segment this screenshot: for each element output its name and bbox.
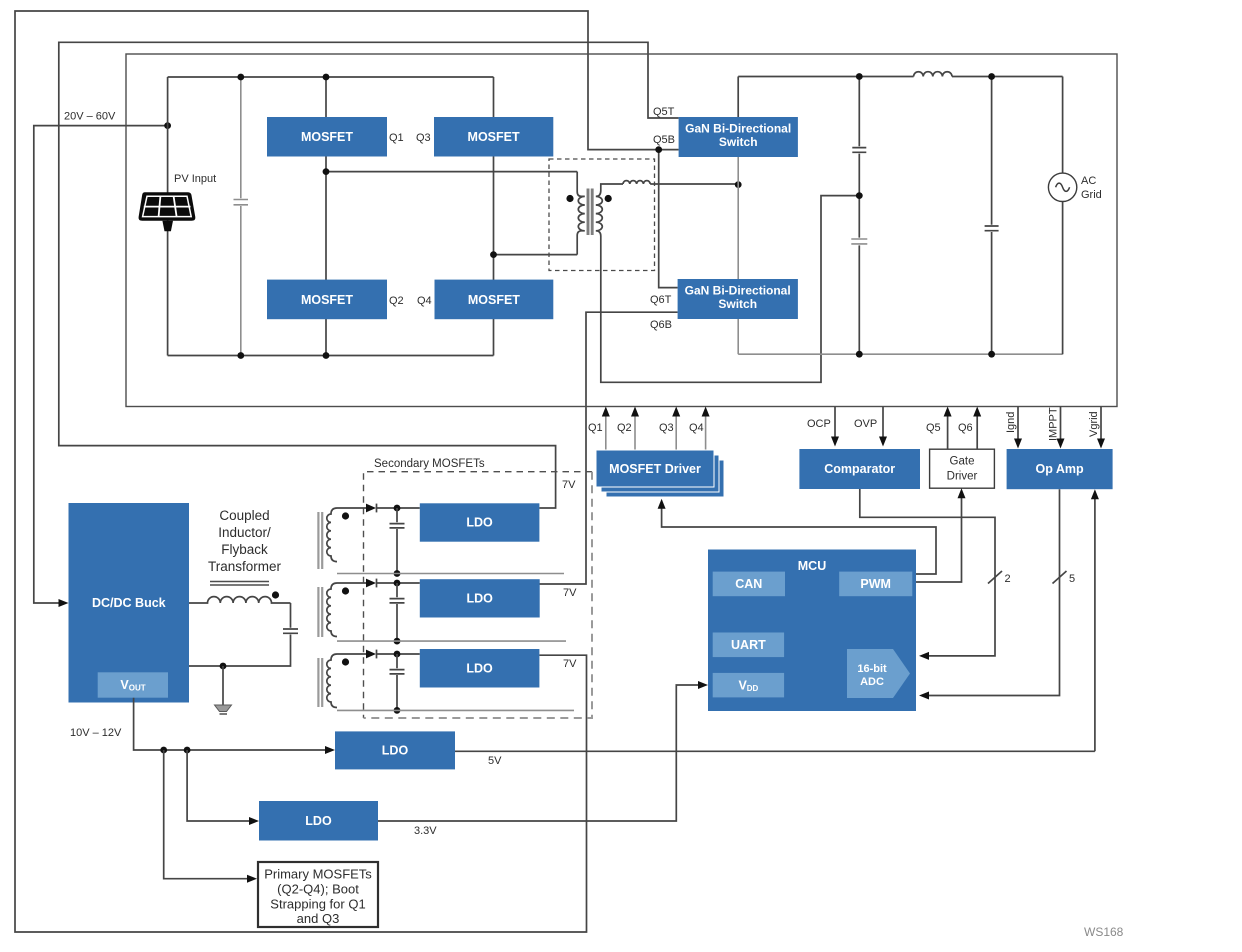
node dots on H-bridge [237,74,244,81]
LDO2 block [420,579,540,617]
wire OCP sense [834,407,836,442]
wire cell1 cap branch [396,508,398,574]
wire gate signal Q5 [947,412,949,449]
arrow into DC/DC buck [59,599,69,607]
primary MOSFETs bias box [258,862,378,927]
svg-text:LDO: LDO [466,662,493,676]
wire cell1 top [337,507,366,509]
svg-text:20V – 60V: 20V – 60V [64,111,116,123]
node on buck return [220,663,227,670]
svg-text:(Q2-Q4); Boot: (Q2-Q4); Boot [277,882,359,897]
T1 secondary polarity dot [605,195,612,202]
wire PV column [167,77,169,356]
T4 core [318,658,322,707]
wire Vout to 10V-12V rail [134,698,331,750]
wire PWM to MOSFET driver [662,504,936,574]
transformer T1 secondary winding [596,191,603,237]
wire cell1 return rail [337,573,564,575]
svg-text:AC: AC [1081,175,1096,187]
wire Q1/Q2 column [325,77,327,356]
wire Vgrid sense into op amp [1100,407,1102,444]
svg-text:2: 2 [1005,573,1011,585]
LDO3 block [420,649,540,688]
node on 20V-60V wire [164,122,171,129]
svg-text:Ignd: Ignd [1005,412,1017,433]
wire LDO2 7V to Q6B [539,312,677,584]
transformer T1 primary winding [577,172,585,255]
wire node Q5B to Q6T [659,150,678,288]
capacitor C-in plates [234,200,249,205]
node cell3 top [394,651,401,658]
svg-text:Q4: Q4 [689,422,704,434]
filter branch 1 wire [858,77,860,355]
wire diode to LDO2 [377,582,420,584]
filter branch 2 wire [991,77,993,355]
wire Q3/Q4 column [493,77,495,356]
wire T1 secondary top through inductor to GaN mid node [601,184,623,191]
svg-text:Secondary MOSFETs: Secondary MOSFETs [374,458,485,470]
gate driver block [930,449,995,488]
svg-text:Strapping for Q1: Strapping for Q1 [270,897,365,912]
wire GaN1 to GaN2 [737,157,739,279]
svg-text:OCP: OCP [807,418,831,430]
wire IMPPT sense into op amp [1060,407,1062,444]
svg-text:Switch: Switch [718,297,757,311]
node Q5B junction [655,146,662,153]
DC/DC buck block [69,503,190,703]
svg-text:Q6: Q6 [958,422,973,434]
bus slash 2 [988,571,1002,584]
wire gate signal Q2 [634,412,636,450]
capacitor C-f2 plates [851,239,867,244]
wire loop LDO3 7V to Q5B around page frame [15,11,679,932]
svg-text:16-bit: 16-bit [857,663,887,675]
svg-text:Q5T: Q5T [653,106,675,118]
node cell1 top [394,505,401,512]
inductor L-filter [914,72,952,77]
wire 5V output [455,750,1095,752]
svg-text:Comparator: Comparator [824,462,895,476]
flyback secondary cell 2 [318,579,566,645]
wire input capacitor column [240,77,242,356]
wire comparator output 2-bus to MCU [860,489,995,656]
PV panel icon [139,192,196,231]
svg-text:MCU: MCU [798,559,826,573]
T3 core [318,587,322,637]
node cell3 bottom [394,707,401,714]
wire cell3 return rail [337,709,574,711]
AC output bottom rail [738,353,1062,355]
flyback secondary cell 3 [318,650,574,714]
T3 winding [327,583,337,637]
T2 winding [327,508,337,562]
svg-text:LDO: LDO [382,744,409,758]
T3 polarity dot [342,587,349,594]
svg-text:Inductor/: Inductor/ [218,525,271,540]
CAN sub-block [713,572,785,597]
wire PWM to gate driver [916,494,962,583]
node on GaN connecting wire [735,181,742,188]
wire buck output cap branch [189,603,291,666]
svg-text:MOSFET: MOSFET [301,293,353,307]
transformer T1 core [588,189,592,236]
svg-text:MOSFET: MOSFET [468,293,520,307]
MCU block [708,550,916,712]
svg-text:7V: 7V [562,479,576,491]
svg-text:5: 5 [1069,573,1075,585]
svg-text:5V: 5V [488,755,502,767]
T1 primary polarity dot [566,195,573,202]
svg-text:Transformer: Transformer [208,559,282,574]
wire LDO1 7V to Q5T [59,42,679,508]
svg-text:MOSFET: MOSFET [301,130,353,144]
svg-text:GaN Bi-Directional: GaN Bi-Directional [685,122,791,136]
svg-text:Q6T: Q6T [650,294,672,306]
T4 winding [327,654,337,708]
wire cell2 cap branch [396,583,398,641]
capacitor C-s2 plates [390,599,405,603]
wire gate signal Q1 [605,412,607,450]
svg-text:GaN Bi-Directional: GaN Bi-Directional [685,284,791,298]
svg-text:PV Input: PV Input [174,173,216,185]
wire op amp 5-bus to ADC [924,489,1060,695]
L-buck polarity dot [272,591,279,598]
diode D3 [366,650,376,659]
svg-text:Vgrid: Vgrid [1088,411,1100,437]
wire 3.3V to Vdd [378,685,704,821]
svg-text:Q5: Q5 [926,422,941,434]
wire AC grid branch [1062,77,1064,355]
UART sub-block [713,633,784,658]
wire Ignd sense into op amp [1017,407,1019,444]
capacitor C-buck plates [283,629,298,633]
coupled inductor core bars [210,582,269,586]
wire GaN1 top to AC rail [737,77,739,118]
svg-text:Primary MOSFETs: Primary MOSFETs [264,867,372,882]
16-bit ADC sub-block [847,649,910,698]
comparator block [799,449,920,489]
Vout sub-block [98,672,168,697]
svg-text:IMPPT: IMPPT [1048,407,1060,441]
secondary MOSFETs dashed box [364,472,593,718]
wire to ground [222,666,224,705]
AC grid source symbol [1048,173,1076,201]
wire gate signal Q6 [976,412,978,449]
wire T1 secondary bottom to output cap midpoint [601,196,860,383]
flyback secondary cell 1 [318,504,564,577]
capacitor C-s3 plates [390,670,405,674]
svg-text:Q3: Q3 [659,422,674,434]
svg-text:Q1: Q1 [389,132,404,144]
MOSFET Q4 block [435,280,554,320]
svg-text:Op Amp: Op Amp [1036,462,1085,476]
node dots on 10V-12V rail [160,747,167,754]
svg-text:and Q3: and Q3 [297,911,340,926]
node cell2 bottom [394,638,401,645]
svg-text:7V: 7V [563,587,577,599]
capacitor C-s1 plates [390,524,405,528]
svg-text:CAN: CAN [735,577,762,591]
wire cell3 cap branch [396,654,398,710]
ground symbol [215,705,232,712]
node dots filter branch 2 [988,73,995,80]
T2 polarity dot [342,512,349,519]
wire cell2 top [337,582,366,584]
svg-text:UART: UART [731,638,766,652]
MOSFET Q1 block [267,117,387,157]
node cell2 top [394,580,401,587]
wire diode to LDO1 [377,507,420,509]
node dots filter branch 1 [856,73,863,80]
T4 polarity dot [342,658,349,665]
svg-text:3.3V: 3.3V [414,825,437,837]
svg-text:MOSFET Driver: MOSFET Driver [609,462,701,476]
svg-text:Q5B: Q5B [653,134,675,146]
GaN bi-directional switch 2 block [678,279,798,319]
wire branch to primary MOSFET bias [164,750,253,879]
svg-text:Switch: Switch [719,135,758,149]
H-bridge bottom rail [168,355,494,357]
wire cell3 top [337,653,366,655]
svg-text:DC/DC Buck: DC/DC Buck [92,596,166,610]
svg-text:LDO: LDO [467,592,494,606]
wire branch to LDO5 [187,750,254,821]
svg-text:Driver: Driver [947,471,978,483]
svg-text:Q2: Q2 [617,422,632,434]
T2 core [318,512,322,569]
svg-text:Grid: Grid [1081,189,1102,201]
svg-text:Q2: Q2 [389,295,404,307]
wire OVP sense [882,407,884,442]
svg-text:Q1: Q1 [588,422,603,434]
transformer T1 dashed box [549,159,655,271]
capacitor C-f1 plates [852,148,866,153]
svg-text:PWM: PWM [860,577,891,591]
LDO5 block (3.3V) [259,801,378,841]
node cell1 bottom [394,570,401,577]
GaN bi-directional switch 1 block [679,117,798,157]
wire gate signal Q3 [675,412,677,450]
LDO4 block (5V) [335,731,455,769]
svg-text:Q3: Q3 [416,132,431,144]
svg-text:Q6B: Q6B [650,319,672,331]
coupled inductor L-buck [189,597,291,603]
wire cell2 return rail [337,640,566,642]
wire diode to LDO3 [377,653,420,655]
bus slash 5 [1053,571,1067,584]
AC output top rail with filter inductor [738,76,913,78]
diode D2 [366,579,376,588]
svg-text:7V: 7V [563,658,577,670]
wire gate signal Q4 [705,412,707,450]
svg-text:MOSFET: MOSFET [468,130,520,144]
op amp block [1007,449,1113,489]
LDO1 block [420,503,540,541]
wire bridge mid node A to transformer primary top [326,171,577,173]
svg-text:Flyback: Flyback [221,542,268,557]
inductor L-sec [623,181,650,184]
MOSFET driver stacked blocks [596,450,724,497]
svg-text:Q4: Q4 [417,295,432,307]
PWM sub-block [839,572,912,597]
svg-text:Coupled: Coupled [219,508,269,523]
wire 5V supply to op amp [1094,495,1096,752]
svg-text:ADC: ADC [860,676,884,688]
wire bridge mid node B to transformer primary bottom [494,254,578,256]
MOSFET Q2 block [267,280,387,320]
MOSFET Q3 block [434,117,553,157]
svg-text:10V – 12V: 10V – 12V [70,727,122,739]
svg-text:LDO: LDO [466,516,493,530]
power stage outline box [126,54,1117,407]
wire 20V-60V input to DC/DC buck [34,126,168,603]
svg-text:OVP: OVP [854,418,877,430]
Vdd sub-block [713,673,784,698]
capacitor C-f3 plates [985,226,999,231]
H-bridge top rail [168,76,494,78]
svg-text:Gate: Gate [950,456,975,468]
svg-text:WS168: WS168 [1084,925,1124,939]
wire GaN2 bottom [737,319,739,354]
svg-text:LDO: LDO [305,814,332,828]
diode D1 [366,504,376,513]
